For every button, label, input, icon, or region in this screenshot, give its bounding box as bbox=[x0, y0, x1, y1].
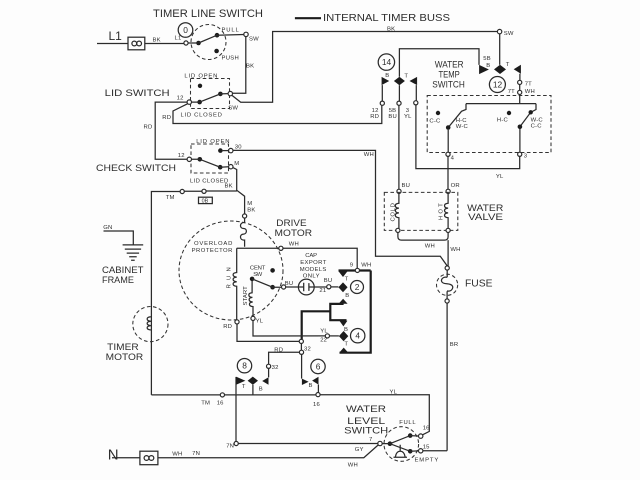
timer motor dashed circle bbox=[133, 307, 168, 342]
terminal cold bottom bbox=[396, 228, 400, 232]
svg-text:7: 7 bbox=[369, 437, 372, 443]
terminal BU cap bbox=[282, 285, 286, 289]
svg-text:22: 22 bbox=[320, 338, 327, 344]
svg-text:4: 4 bbox=[355, 331, 360, 341]
svg-text:FULL: FULL bbox=[399, 420, 416, 426]
svg-text:T: T bbox=[242, 384, 246, 390]
svg-text:WH: WH bbox=[361, 263, 371, 269]
wire OR terminal 4 to water valve bbox=[447, 156, 449, 189]
wire BK down from SW to lid switch bbox=[233, 37, 246, 94]
check switch open contact bbox=[218, 148, 223, 153]
svg-text:WH: WH bbox=[450, 247, 460, 253]
wire to terminal 3 bbox=[519, 129, 521, 152]
svg-text:CENT: CENT bbox=[250, 266, 266, 272]
svg-text:B: B bbox=[385, 73, 389, 79]
svg-text:SWITCH: SWITCH bbox=[344, 426, 388, 437]
wire L1 lead bbox=[97, 43, 184, 45]
fuse bbox=[437, 274, 458, 295]
terminal 30 bbox=[229, 148, 233, 152]
svg-text:FRAME: FRAME bbox=[102, 275, 134, 285]
wire BR fuse to water level switch bbox=[446, 303, 448, 451]
water temp switch right pole bbox=[520, 104, 536, 127]
svg-text:B: B bbox=[345, 293, 349, 299]
circled 14 bbox=[378, 54, 394, 70]
svg-text:B: B bbox=[309, 383, 313, 389]
terminal SW lid switch bbox=[228, 91, 232, 95]
terminal 3 water temp switch bbox=[518, 152, 522, 156]
wire 30 WH to fuse bbox=[233, 150, 447, 265]
terminal M check switch bbox=[229, 165, 233, 169]
svg-text:EXPORT: EXPORT bbox=[300, 260, 326, 266]
svg-text:OR: OR bbox=[451, 183, 460, 189]
svg-text:OVERLOAD: OVERLOAD bbox=[194, 241, 233, 247]
water level switch blades bbox=[382, 436, 418, 452]
wire between 32 terminals bbox=[300, 344, 302, 351]
svg-text:T: T bbox=[344, 342, 348, 348]
svg-text:7N: 7N bbox=[192, 451, 200, 457]
svg-text:T: T bbox=[345, 277, 349, 283]
svg-text:C-C: C-C bbox=[531, 124, 543, 130]
svg-text:LID OPEN: LID OPEN bbox=[196, 139, 230, 145]
svg-text:GY: GY bbox=[355, 447, 364, 453]
pressure dome symbol bbox=[394, 445, 408, 458]
wire N lead bbox=[112, 445, 378, 458]
bottom bus TM-16 bbox=[151, 395, 429, 435]
svg-text:L1: L1 bbox=[109, 29, 123, 43]
wire RD from lid 12 to terminal 12-RD bbox=[173, 104, 382, 124]
cold solenoid bbox=[395, 193, 399, 228]
terminal YL motor bbox=[251, 316, 255, 320]
lid switch blade bbox=[197, 100, 202, 105]
svg-text:PULL: PULL bbox=[222, 28, 240, 34]
ground cabinet frame bbox=[104, 231, 134, 245]
terminal M drive motor bbox=[243, 214, 247, 218]
svg-text:WH: WH bbox=[525, 89, 535, 95]
svg-text:15: 15 bbox=[423, 444, 430, 450]
run winding bbox=[233, 248, 237, 319]
svg-text:5B: 5B bbox=[483, 56, 491, 62]
wire 9-WH rail (contacts 2-4 box top) bbox=[339, 269, 371, 271]
start winding bbox=[249, 281, 253, 316]
svg-text:RD: RD bbox=[162, 115, 171, 121]
terminal 22 bbox=[325, 334, 329, 338]
timer contact 4 bbox=[339, 331, 348, 341]
svg-text:WH: WH bbox=[289, 241, 299, 247]
terminal 7N bbox=[234, 441, 238, 445]
label 0B boxed bbox=[199, 197, 213, 203]
wire contact 14 top to contact 12 bbox=[399, 49, 479, 77]
svg-text:M: M bbox=[234, 161, 239, 167]
timer line switch dashed circle bbox=[191, 25, 226, 60]
svg-text:LID OPEN: LID OPEN bbox=[184, 73, 217, 79]
circled 8 bbox=[237, 359, 251, 373]
timer contact 14 bbox=[382, 77, 390, 85]
svg-text:T: T bbox=[404, 73, 408, 79]
wire valve common WH bbox=[398, 233, 448, 266]
capacitor C export bbox=[298, 279, 314, 295]
connector plug L1 bbox=[128, 37, 145, 50]
svg-text:BK: BK bbox=[247, 208, 255, 214]
svg-text:32: 32 bbox=[272, 365, 279, 371]
terminal 5B-BU bbox=[397, 101, 401, 105]
terminal WH drive motor bbox=[279, 246, 283, 250]
svg-text:LID CLOSED: LID CLOSED bbox=[181, 113, 223, 119]
wire contact 12 to 7T bbox=[519, 74, 521, 81]
svg-text:CHECK SWITCH: CHECK SWITCH bbox=[96, 163, 176, 174]
svg-text:16: 16 bbox=[217, 401, 224, 407]
terminal 7T upper bbox=[518, 80, 522, 84]
svg-text:7N: 7N bbox=[226, 444, 234, 450]
svg-text:N: N bbox=[108, 447, 119, 464]
svg-text:BR: BR bbox=[450, 342, 459, 348]
water valve dashed box bbox=[384, 192, 458, 230]
svg-text:12: 12 bbox=[178, 153, 185, 159]
wire lid switch SW to internal timer buss bbox=[232, 32, 497, 103]
timer line switch 0: circled 0 bbox=[178, 23, 193, 38]
svg-text:T: T bbox=[506, 62, 510, 68]
terminal 32 lower bbox=[299, 350, 303, 354]
svg-text:TM: TM bbox=[166, 195, 175, 201]
wire 7T to 7T-WH bbox=[519, 85, 521, 91]
svg-text:B: B bbox=[486, 63, 490, 69]
wire contact 8 T down to 7N bbox=[235, 394, 237, 441]
svg-text:6: 6 bbox=[316, 362, 321, 372]
svg-text:RUN: RUN bbox=[227, 267, 233, 289]
wire 7T-WH into switch common bbox=[519, 95, 521, 104]
svg-text:BU: BU bbox=[285, 281, 294, 287]
cent sw blade bbox=[252, 279, 281, 287]
svg-text:RD: RD bbox=[144, 124, 153, 130]
legend line for internal timer buss bbox=[295, 17, 321, 19]
terminal 12 check switch bbox=[187, 157, 191, 161]
svg-text:TIMER LINE SWITCH: TIMER LINE SWITCH bbox=[153, 8, 263, 20]
lid switch dashed box bbox=[191, 79, 230, 109]
svg-text:INTERNAL TIMER BUSS: INTERNAL TIMER BUSS bbox=[323, 13, 450, 24]
lid switch open contact dot bbox=[198, 84, 202, 88]
overload protector squiggle bbox=[240, 218, 246, 247]
svg-text:7T: 7T bbox=[525, 81, 532, 87]
timer contact 8 bbox=[235, 377, 237, 394]
cent sw contacts bbox=[270, 268, 275, 273]
terminal hot bottom bbox=[446, 228, 450, 232]
terminal 9 bbox=[355, 268, 359, 272]
wire SW down to contact 12 bbox=[499, 34, 501, 65]
timer contact 6 bbox=[302, 379, 309, 385]
svg-text:YL: YL bbox=[496, 174, 504, 180]
drive motor top rail bbox=[237, 248, 358, 268]
svg-text:MOTOR: MOTOR bbox=[106, 352, 144, 363]
terminal 21 bbox=[327, 285, 331, 289]
hot solenoid bbox=[445, 193, 449, 228]
terminal L1 bbox=[184, 41, 188, 45]
svg-text:RD: RD bbox=[370, 114, 379, 120]
svg-text:WATER: WATER bbox=[346, 404, 386, 415]
terminal SW internal timer buss bbox=[497, 29, 501, 33]
svg-text:H-C: H-C bbox=[456, 118, 468, 124]
svg-text:PROTECTOR: PROTECTOR bbox=[192, 248, 233, 254]
svg-text:C-C: C-C bbox=[429, 118, 441, 124]
terminal 16 full bbox=[419, 434, 423, 438]
wire contact2-B zigzag to contact 4 bbox=[330, 304, 346, 320]
terminal BU water valve bbox=[397, 189, 401, 193]
svg-text:9: 9 bbox=[350, 263, 353, 269]
terminal 12 lid switch bbox=[187, 100, 191, 104]
wire contact14 right stub to terminal 3-YL bbox=[415, 85, 417, 101]
svg-text:2: 2 bbox=[355, 282, 360, 292]
svg-text:H-C: H-C bbox=[497, 117, 509, 123]
wire BU 5B to water valve bbox=[398, 105, 400, 189]
wire 15 to BR bbox=[423, 450, 447, 452]
water level switch dashed circle bbox=[384, 427, 419, 462]
svg-text:12: 12 bbox=[177, 96, 184, 102]
timer contact 12 bbox=[479, 65, 489, 74]
timer contact 2 bbox=[338, 271, 347, 277]
drive motor dashed circle bbox=[179, 221, 283, 320]
terminal 7T-WH bbox=[518, 90, 522, 94]
wire GY 7N to water level switch 7 bbox=[238, 443, 378, 445]
terminal 7 water level switch bbox=[378, 441, 382, 445]
terminal TM-b bbox=[202, 189, 206, 193]
svg-text:BK: BK bbox=[225, 183, 233, 189]
wire 21 to contact 2 bbox=[331, 286, 339, 288]
svg-text:14: 14 bbox=[382, 57, 392, 67]
svg-text:16: 16 bbox=[423, 425, 430, 431]
timer contact 4 upper arrow bbox=[339, 321, 347, 327]
svg-text:16: 16 bbox=[313, 402, 320, 408]
water temp switch dashed box bbox=[427, 96, 551, 153]
svg-text:SW: SW bbox=[253, 272, 262, 278]
check switch dashed box bbox=[191, 144, 229, 173]
circled 6 bbox=[311, 359, 325, 373]
svg-text:YL: YL bbox=[404, 114, 412, 120]
wire TM bbox=[151, 191, 237, 395]
svg-text:SW: SW bbox=[228, 105, 238, 111]
wire 12 to check switch 12 bbox=[155, 102, 187, 159]
svg-text:RD: RD bbox=[274, 348, 283, 354]
svg-text:CAP: CAP bbox=[305, 253, 317, 259]
svg-text:WH: WH bbox=[425, 243, 435, 249]
svg-text:RD: RD bbox=[223, 324, 232, 330]
circled 4 bbox=[351, 329, 365, 343]
svg-text:VALVE: VALVE bbox=[468, 212, 503, 223]
wire branch to node 32 bbox=[302, 311, 331, 339]
svg-text:21: 21 bbox=[319, 288, 326, 294]
svg-text:BU: BU bbox=[324, 278, 333, 284]
wire YL contact14 to terminal 3 bbox=[416, 105, 520, 169]
wire YL start winding to 22 bbox=[253, 321, 325, 337]
circled 2 bbox=[351, 281, 364, 294]
svg-text:7T: 7T bbox=[508, 89, 515, 95]
svg-text:M: M bbox=[247, 201, 252, 207]
wire RD run winding to 32 bbox=[237, 324, 299, 341]
svg-text:BK: BK bbox=[387, 27, 395, 33]
svg-text:30: 30 bbox=[235, 145, 242, 151]
terminal RD motor bbox=[235, 320, 239, 324]
svg-text:EMPTY: EMPTY bbox=[415, 457, 439, 463]
wire node32 down to contact 6 bbox=[301, 354, 303, 378]
svg-text:WH: WH bbox=[172, 451, 182, 457]
svg-text:TM: TM bbox=[201, 401, 210, 407]
svg-text:12: 12 bbox=[493, 80, 503, 90]
terminal 16 left bbox=[220, 393, 224, 397]
check switch blade bbox=[198, 157, 203, 162]
svg-text:W-C: W-C bbox=[456, 124, 469, 130]
svg-text:LID SWITCH: LID SWITCH bbox=[105, 88, 170, 98]
wire contact14 left stub to terminal 12-RD bbox=[381, 85, 383, 101]
svg-text:32: 32 bbox=[304, 347, 311, 353]
terminal SW of timer line switch bbox=[244, 32, 248, 36]
wire M-BK check switch to drive motor bbox=[233, 168, 245, 214]
svg-text:8: 8 bbox=[242, 361, 247, 371]
svg-text:B: B bbox=[344, 327, 348, 333]
svg-text:WH: WH bbox=[348, 463, 358, 469]
terminal OR water valve bbox=[446, 189, 450, 193]
terminal 16 right bbox=[316, 393, 320, 397]
svg-text:YL: YL bbox=[256, 318, 264, 324]
svg-text:MOTOR: MOTOR bbox=[275, 228, 313, 239]
svg-text:SW: SW bbox=[504, 31, 514, 37]
circled 12 bbox=[489, 77, 505, 93]
connector plug N bbox=[140, 451, 158, 465]
water temp switch left pole bbox=[448, 104, 466, 128]
svg-text:LID CLOSED: LID CLOSED bbox=[190, 178, 229, 184]
svg-text:PUSH: PUSH bbox=[222, 56, 240, 62]
timer motor coil bbox=[147, 317, 151, 330]
terminal 32 contact 8 bbox=[267, 364, 271, 368]
terminal 3-YL bbox=[414, 101, 418, 105]
svg-text:GN: GN bbox=[103, 225, 112, 231]
svg-text:SW: SW bbox=[249, 37, 259, 43]
svg-text:YL: YL bbox=[390, 389, 398, 395]
svg-text:4: 4 bbox=[451, 155, 455, 161]
terminal TM-a bbox=[180, 189, 184, 193]
svg-text:0: 0 bbox=[183, 25, 188, 35]
contacts 2-4 box right edge and bottom bbox=[340, 271, 371, 353]
timer line switch blade and contacts bbox=[196, 41, 201, 46]
water level switch contacts bbox=[388, 441, 393, 446]
svg-text:BU: BU bbox=[388, 114, 397, 120]
wire 22 to contact 4 bbox=[330, 335, 339, 337]
svg-text:FUSE: FUSE bbox=[465, 279, 493, 290]
svg-text:HOT: HOT bbox=[438, 203, 444, 220]
svg-text:0B: 0B bbox=[202, 199, 209, 205]
svg-text:SWITCH: SWITCH bbox=[432, 79, 465, 90]
svg-text:CABINET: CABINET bbox=[102, 265, 144, 275]
wire RD 32 to contact 8 bbox=[269, 352, 300, 364]
svg-text:WH: WH bbox=[364, 152, 374, 158]
svg-text:BK: BK bbox=[153, 38, 161, 44]
svg-text:BK: BK bbox=[246, 64, 254, 70]
terminal 32 upper bbox=[299, 339, 303, 343]
terminal 12-RD bbox=[380, 101, 384, 105]
terminal 15 empty bbox=[419, 449, 423, 453]
svg-text:BU: BU bbox=[402, 183, 411, 189]
wire 32 down to contact 8 bbox=[268, 368, 270, 377]
svg-text:MODELS: MODELS bbox=[300, 267, 327, 273]
svg-text:3: 3 bbox=[524, 154, 528, 160]
wire to terminal 4 bbox=[447, 130, 449, 153]
svg-text:START: START bbox=[243, 286, 249, 306]
svg-text:B: B bbox=[259, 386, 263, 392]
terminal 4 water temp switch bbox=[446, 152, 450, 156]
svg-text:L1: L1 bbox=[175, 36, 182, 42]
water temp switch internal bus bbox=[466, 103, 536, 105]
wire contact14 center to terminal 5B-BU bbox=[398, 85, 400, 101]
